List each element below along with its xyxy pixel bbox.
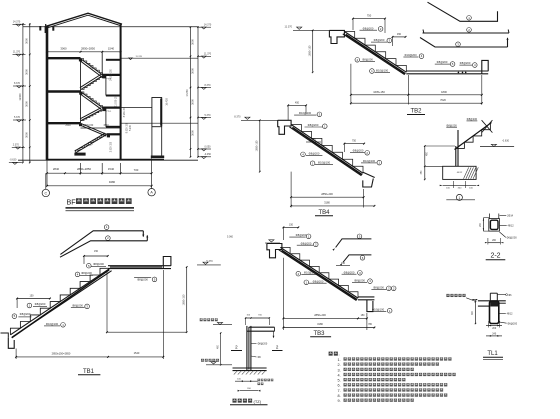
svg-text:2850x150=2850: 2850x150=2850 (52, 352, 71, 356)
svg-text:8.370: 8.370 (14, 82, 21, 85)
svg-text:9480: 9480 (109, 180, 116, 184)
TL1 beam dark top (490, 302, 498, 307)
svg-text:PTL1: PTL1 (106, 111, 112, 113)
TL1 bottom dim1 (486, 325, 502, 327)
TB3 flight slab (280, 247, 358, 298)
TB1 landing upturn (163, 257, 171, 269)
TB2 slab right upturn (482, 60, 488, 73)
svg-text:14.370: 14.370 (13, 20, 21, 23)
svg-text:3000: 3000 (25, 101, 29, 107)
svg-text:Φ8@200: Φ8@200 (72, 304, 83, 308)
TB1 bottom end step (1, 333, 9, 338)
foundation bottom dim (443, 184, 476, 186)
svg-text:5.060: 5.060 (227, 236, 234, 239)
under-stair line (81, 127, 121, 129)
TB4 vertical dim (259, 120, 261, 171)
svg-text:Φ8@200: Φ8@200 (308, 123, 319, 127)
svg-text:Φ10@200: Φ10@200 (363, 159, 376, 163)
TB1 label 4top (75, 272, 80, 277)
svg-text:TB3: TB3 (313, 331, 325, 337)
svg-text:12400: 12400 (18, 93, 22, 101)
svg-text:Φ8@200: Φ8@200 (467, 117, 478, 121)
svg-text:2540: 2540 (65, 124, 71, 127)
TZ title (233, 399, 237, 403)
svg-text:5.370: 5.370 (206, 260, 213, 263)
TZ bottom slab (233, 367, 267, 369)
foundation rebar vertical (457, 130, 459, 166)
TZ dim 200 (240, 390, 258, 392)
TZ bottom dim (235, 380, 258, 382)
svg-text:2840: 2840 (53, 167, 60, 171)
TB3 bottom ext (282, 258, 284, 330)
TL1 main slab line (478, 300, 506, 302)
svg-text:450: 450 (397, 33, 402, 36)
section title underline (66, 207, 135, 209)
svg-text:750: 750 (352, 140, 357, 143)
TZ slab right arrow (273, 332, 275, 338)
svg-text:1540: 1540 (103, 124, 109, 127)
TB1 bar shape 1 (60, 231, 143, 255)
foundation hatch (464, 167, 469, 178)
TB4 top beam (278, 120, 291, 134)
TZ level marker lower (211, 362, 216, 364)
TL1 level triangle (473, 299, 477, 301)
svg-text:Φ8@200: Φ8@200 (460, 61, 471, 65)
svg-text:0.050: 0.050 (205, 145, 212, 148)
svg-text:1540: 1540 (108, 167, 115, 171)
3F floor slab (47, 57, 81, 59)
TB2 label 4a (355, 58, 360, 63)
landing edge vertical (101, 52, 103, 75)
TB2 level marker (297, 27, 302, 29)
mid landing lower (102, 106, 120, 108)
svg-text:Φ10@200: Φ10@200 (404, 53, 417, 57)
svg-text::: : (339, 352, 340, 357)
TL1 phi6 leader (497, 294, 506, 296)
2-2 stirrup (490, 220, 498, 229)
svg-text:750: 750 (367, 14, 372, 18)
svg-text:4Φ12: 4Φ12 (508, 225, 515, 228)
TB4 dim row1 (291, 196, 364, 198)
svg-text:Φ10@200: Φ10@200 (304, 271, 317, 275)
notes header (329, 352, 333, 356)
ground line (18, 159, 198, 161)
landing beam squares (102, 75, 105, 78)
TB3 label 1b (304, 280, 309, 285)
TB2 flight steps (344, 32, 406, 73)
svg-text:BF: BF (67, 197, 77, 206)
svg-text:5.: 5. (338, 379, 341, 383)
TZ top dims (246, 317, 270, 319)
svg-text:8.930-150: 8.930-150 (124, 106, 126, 117)
TB4 flight steps (291, 125, 363, 174)
TB2 label 1 (370, 69, 375, 74)
svg-text:3000: 3000 (191, 130, 195, 136)
svg-text:1650+150: 1650+150 (255, 140, 258, 151)
TB2 bottom ext lines (350, 64, 352, 105)
svg-text:Φ10@200: Φ10@200 (299, 111, 312, 115)
svg-text:2.930-150: 2.930-150 (111, 141, 113, 152)
svg-text:2850x150: 2850x150 (83, 124, 94, 127)
svg-text:Φ8@200: Φ8@200 (258, 343, 268, 346)
flight F lower landing-ground (76, 135, 107, 153)
TB3 top dim150 (283, 226, 298, 228)
svg-text:3000: 3000 (191, 99, 195, 105)
TB1 top landing slab (108, 265, 171, 267)
svg-text:3000: 3000 (25, 132, 29, 138)
2-2 left dim (482, 218, 484, 231)
split-level wall verticals (105, 75, 107, 96)
section top dim line (47, 51, 121, 53)
svg-text:14.930-150: 14.930-150 (111, 68, 113, 80)
svg-text:2.: 2. (338, 363, 341, 367)
svg-text:Φ8@200: Φ8@200 (437, 60, 448, 64)
TB3 dim row2 (283, 327, 374, 329)
TB3 arrow shape 5 (336, 239, 372, 248)
svg-text:1: 1 (459, 196, 461, 200)
svg-text:8.370: 8.370 (205, 84, 212, 87)
TB1 right vertical dim (186, 267, 188, 332)
svg-text:-0.630: -0.630 (502, 140, 510, 143)
axis circle A (151, 186, 153, 189)
svg-text:1650+150: 1650+150 (308, 45, 311, 56)
TZ wall rebar (248, 327, 250, 370)
svg-text:Φ8@200: Φ8@200 (20, 312, 31, 316)
2-2 leader corner (500, 232, 506, 237)
TL1 left dim (475, 302, 477, 324)
TB1 level marker (203, 262, 208, 264)
right dim lines (190, 27, 192, 157)
flight E 1F-lower landing (81, 123, 107, 134)
TB2 flight rebar (346, 34, 406, 73)
svg-text:150: 150 (312, 139, 317, 142)
mid landing upper (102, 74, 120, 76)
TB1 bar shape 2 (60, 241, 147, 257)
svg-text:3180: 3180 (317, 322, 323, 326)
TB1 upper dim line (107, 331, 187, 333)
svg-text:3180: 3180 (324, 201, 330, 205)
svg-text:-0.630: -0.630 (10, 159, 17, 162)
lower half landing (107, 133, 121, 135)
TZ top slab (249, 326, 275, 328)
svg-text:3000: 3000 (191, 68, 195, 74)
svg-text:Φ10@100: Φ10@100 (318, 160, 331, 164)
bar shape 2 (423, 32, 510, 34)
TZ leader b (251, 356, 257, 357)
svg-text:3000: 3000 (25, 69, 29, 75)
foundation left dim (424, 146, 426, 179)
svg-text:150: 150 (289, 223, 294, 226)
svg-text:Φ8@200: Φ8@200 (373, 286, 384, 290)
3F wall level marker (129, 58, 133, 60)
TB4 bottom end (363, 172, 375, 177)
svg-text:Φ6@200: Φ6@200 (507, 236, 518, 239)
svg-text:C: C (44, 192, 47, 196)
TB4 bottom ext lines (290, 172, 292, 208)
TB2 mid dim 450 (393, 36, 406, 38)
svg-text:2850+200: 2850+200 (321, 192, 333, 196)
TB3 top beam (267, 244, 282, 258)
foundation diagonal bar (455, 123, 492, 150)
TB3 dim row1 (283, 317, 367, 319)
right wall (120, 24, 122, 160)
svg-text:7.: 7. (338, 389, 341, 393)
svg-text:2850+2850: 2850+2850 (81, 46, 96, 50)
svg-text:Φ8@200: Φ8@200 (309, 152, 320, 156)
svg-text:Φ8@200: Φ8@200 (362, 58, 373, 62)
svg-text:1605+150: 1605+150 (373, 90, 385, 94)
TB3 bottom horiz (358, 296, 374, 298)
TB1 bottom hook (8, 338, 14, 349)
wall stub blobs at eave (39, 26, 41, 31)
TB2 dim row2 (351, 102, 482, 104)
svg-text:8.370: 8.370 (234, 116, 241, 119)
TB2 top dim (353, 18, 385, 20)
2-2 leader top (500, 214, 507, 216)
svg-text:16.430: 16.430 (166, 98, 169, 106)
2-2 bottom dim (488, 242, 501, 244)
TZ wall verticals (246, 326, 248, 371)
svg-text:150: 150 (94, 250, 99, 253)
svg-text:4Φ12: 4Φ12 (457, 171, 463, 174)
TZ vertical dim left (220, 333, 222, 365)
section bottom ext lines (46, 160, 48, 186)
right side split-level slabs (106, 59, 121, 61)
2-2 leader right (500, 225, 507, 227)
svg-text:TB2: TB2 (410, 109, 422, 115)
svg-text:450: 450 (295, 101, 300, 104)
TB1 bottom ext lines (15, 349, 17, 360)
TB4 flight rebar (292, 127, 362, 174)
svg-text:2Φ14: 2Φ14 (507, 214, 514, 217)
foundation steps (456, 123, 491, 148)
flight C 2F-landing (81, 92, 103, 108)
svg-text:17250: 17250 (185, 89, 189, 97)
TB1 dim150 top (84, 255, 108, 257)
flight B landing-2F (81, 76, 102, 90)
svg-text:Φ8@200: Φ8@200 (35, 302, 46, 306)
svg-text:2850+2850: 2850+2850 (77, 167, 92, 171)
TB4 dim row2 (291, 205, 374, 207)
TL1 label leader (466, 298, 473, 301)
TB3 bottom hook (367, 300, 373, 312)
svg-text:8.930-150: 8.930-150 (126, 122, 128, 133)
svg-text:Φ10@100: Φ10@100 (372, 308, 385, 312)
TB1 flight steps (10, 268, 110, 335)
svg-text:TB1: TB1 (83, 369, 95, 375)
svg-text:Φ8@200: Φ8@200 (344, 270, 355, 274)
svg-text:3000: 3000 (191, 39, 195, 45)
svg-text:1540: 1540 (108, 46, 115, 50)
svg-text:11.370: 11.370 (204, 53, 212, 56)
TB4 level marker (245, 117, 250, 119)
svg-text:Φ8@200: Φ8@200 (93, 262, 104, 266)
right level markers (201, 27, 206, 29)
svg-text:5.370: 5.370 (14, 116, 21, 119)
TB1 flight slab (10, 268, 110, 335)
TL1 upstand (489, 293, 491, 301)
TB4 flight slab (291, 125, 363, 174)
TB4 right dim 750 (344, 143, 364, 145)
svg-text:Φ8@200: Φ8@200 (137, 278, 148, 282)
TL1 right leader b (499, 322, 507, 323)
foundation body (455, 146, 457, 166)
svg-text:1.: 1. (338, 358, 341, 362)
svg-text:TB4: TB4 (318, 210, 330, 216)
svg-text:11.370: 11.370 (136, 56, 143, 58)
svg-text:1650+150: 1650+150 (182, 294, 185, 305)
TL1 left slab bottom (478, 305, 490, 307)
flight D landing-1F (81, 110, 102, 121)
svg-text:Φ8@200: Φ8@200 (81, 271, 92, 275)
svg-text:TL1: TL1 (487, 351, 498, 357)
svg-text:150: 150 (341, 262, 346, 265)
left wall (46, 26, 49, 160)
svg-text:11.930-150: 11.930-150 (116, 95, 118, 107)
left dim lines (22, 23, 24, 163)
svg-text:Φ8@200: Φ8@200 (296, 233, 307, 237)
TB2 vertical dim (312, 30, 314, 72)
TB3 label 4 (296, 271, 301, 276)
svg-text:2850+200: 2850+200 (314, 313, 326, 317)
svg-text:-0.450: -0.450 (204, 153, 211, 156)
svg-text:11.370: 11.370 (13, 50, 21, 53)
TB1 landing label (134, 276, 151, 278)
svg-text:9.: 9. (338, 399, 341, 403)
TB3 flight steps (280, 247, 358, 298)
2-2 column outline (489, 219, 500, 232)
svg-text:Φ8@200: Φ8@200 (301, 241, 312, 245)
foundation axis circle (446, 199, 475, 201)
svg-text:Φ8@200: Φ8@200 (313, 279, 324, 283)
TB1 flight rebar (12, 270, 110, 338)
TB1 label 5low (12, 314, 17, 319)
building section roof (46, 13, 122, 26)
svg-text:5.930: 5.930 (130, 124, 132, 130)
svg-text:150: 150 (30, 295, 35, 298)
svg-text:700: 700 (134, 168, 139, 172)
svg-text:Φ8@200: Φ8@200 (374, 38, 385, 42)
TB1 landing rebar (110, 266, 162, 268)
svg-text:14.370: 14.370 (204, 24, 212, 27)
TB2 top beam (329, 30, 344, 43)
stairwell wall edge (80, 58, 82, 123)
TB2 flight slab (344, 32, 406, 73)
TZ bottom hatch (234, 371, 238, 375)
TB1 bottom dim (16, 356, 163, 358)
TL1 bottom dim2 (486, 335, 502, 337)
svg-text:3.: 3. (338, 368, 341, 372)
flight A 3F-landing (81, 59, 103, 75)
svg-text:1540: 1540 (134, 351, 140, 355)
svg-text:6.: 6. (338, 384, 341, 388)
svg-text:1800: 1800 (441, 90, 447, 94)
svg-text:Φ6@200: Φ6@200 (507, 322, 517, 325)
svg-text:3060: 3060 (60, 46, 67, 50)
svg-text:4.: 4. (338, 373, 341, 377)
landing line to porch (121, 107, 152, 109)
TB2 bottom slab (406, 70, 488, 72)
eave line (23, 26, 198, 28)
1F floor slab (47, 122, 81, 124)
TB1 label 5top (87, 263, 92, 268)
foundation break X (482, 120, 493, 132)
svg-text:3000: 3000 (25, 38, 29, 44)
TZ level marker upper (217, 322, 222, 324)
TL1 beam stirrup (490, 301, 499, 324)
TB3 flight rebar (282, 250, 358, 299)
foundation level marker (491, 144, 496, 146)
svg-text:Φ8@200: Φ8@200 (353, 149, 364, 153)
svg-text:7020: 7020 (440, 98, 446, 102)
TL1 right slab bottom (499, 302, 506, 304)
TB4 label 1b (310, 161, 315, 166)
TZ leader a (251, 343, 257, 345)
TB2 slab rebar dots (458, 72, 460, 74)
bar shape 3 (420, 38, 508, 48)
svg-text:2.370: 2.370 (13, 143, 20, 146)
porch structure (152, 98, 162, 127)
svg-text:Φ10@100: Φ10@100 (376, 69, 389, 73)
stair base block (74, 153, 85, 156)
floor extension lines right (121, 57, 198, 59)
svg-text:2-2: 2-2 (490, 253, 500, 260)
TL1 right leader a (499, 312, 506, 314)
left level markers (16, 24, 21, 26)
2F floor slab (47, 90, 81, 92)
TB1 label 1low (27, 303, 32, 308)
svg-text:Φ10@100: Φ10@100 (46, 322, 59, 326)
svg-text:Φ8@200: Φ8@200 (446, 123, 457, 127)
svg-text:11.370: 11.370 (285, 26, 293, 29)
TB4 label 4 (301, 152, 306, 157)
bar shape 1 (428, 2, 498, 21)
svg-text:8.: 8. (338, 394, 341, 398)
TB3 arrow shape 6 (343, 255, 371, 262)
svg-text:(TZ): (TZ) (254, 399, 262, 404)
TB1 dim150 low (17, 298, 50, 300)
TB3 level marker (269, 240, 274, 242)
svg-text:Φ8@200: Φ8@200 (363, 26, 374, 30)
svg-text:4Φ12: 4Φ12 (507, 312, 514, 315)
TB4 top dim (288, 104, 306, 106)
svg-text:Φ8@200: Φ8@200 (354, 279, 365, 283)
TB2 dim row1 (351, 94, 482, 96)
axis circle J (45, 173, 47, 189)
TL1 label blocks (446, 294, 449, 297)
svg-text:5.370: 5.370 (205, 114, 212, 117)
